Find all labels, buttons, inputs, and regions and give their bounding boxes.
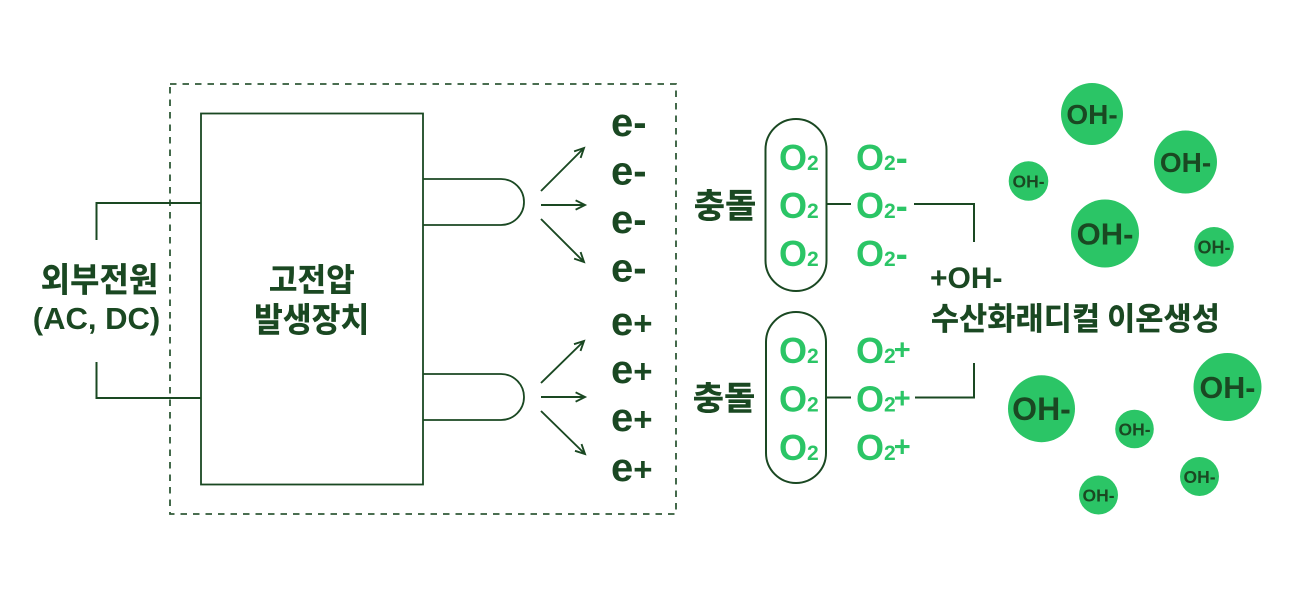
svg-text:e+: e+: [611, 348, 653, 392]
wire bracket top-left: [97, 203, 202, 240]
OH- ion circle D: [1071, 200, 1139, 268]
arrow e+ mid: [541, 392, 585, 401]
svg-text:OH-: OH-: [1183, 467, 1215, 487]
svg-text:e+: e+: [611, 300, 653, 344]
svg-text:O2-: O2-: [856, 185, 908, 226]
OH- ion circle J: [1079, 476, 1118, 515]
svg-text:OH-: OH-: [1200, 371, 1256, 405]
svg-text:O2+: O2+: [856, 330, 911, 371]
svg-text:OH-: OH-: [1066, 99, 1117, 130]
svg-text:O2: O2: [779, 378, 819, 419]
capsule O2 group bottom: [766, 312, 826, 483]
svg-text:O2: O2: [779, 233, 819, 274]
arrow e+ down: [541, 411, 585, 454]
svg-text:OH-: OH-: [1077, 217, 1134, 252]
OH- ion circle G: [1115, 410, 1154, 449]
wire elbow bottom: [915, 363, 974, 398]
label 고전압: [270, 264, 354, 294]
OH- ion circle I: [1180, 457, 1219, 496]
wire elbow top: [914, 204, 974, 242]
svg-text:O2: O2: [779, 137, 819, 178]
wire capsule to O2+: [827, 397, 851, 399]
svg-text:OH-: OH-: [1198, 237, 1231, 257]
svg-text:e+: e+: [611, 396, 653, 440]
svg-text:OH-: OH-: [1012, 171, 1044, 191]
label 발생장치: [256, 303, 366, 335]
svg-text:OH-: OH-: [1082, 485, 1114, 505]
OH- ion circle H: [1194, 353, 1262, 421]
label 외부전원: [42, 263, 156, 295]
electrode prong top: [423, 179, 524, 225]
svg-text:e-: e-: [611, 198, 647, 242]
arrow e- down: [541, 219, 584, 262]
arrow e+ up: [541, 341, 584, 383]
svg-text:+OH-: +OH-: [930, 262, 1003, 295]
svg-text:e-: e-: [611, 246, 647, 290]
svg-text:O2-: O2-: [856, 233, 908, 274]
arrow e- up: [541, 148, 584, 191]
wire capsule to O2-: [827, 203, 851, 205]
arrow e- mid: [541, 200, 585, 209]
svg-text:OH-: OH-: [1012, 391, 1071, 427]
svg-text:O2-: O2-: [856, 137, 908, 178]
svg-text:O2: O2: [779, 330, 819, 371]
OH- ion circle A: [1061, 83, 1123, 145]
svg-text:e-: e-: [611, 149, 647, 193]
svg-text:e-: e-: [611, 101, 647, 145]
label 수산화래디컬 이온생성: [932, 303, 1217, 333]
OH- ion circle E: [1194, 227, 1234, 267]
wire bracket bottom-left: [97, 362, 202, 398]
dashed enclosure box: [170, 84, 676, 514]
svg-text:O2+: O2+: [856, 427, 911, 468]
OH- ion circle B: [1009, 161, 1049, 201]
svg-text:OH-: OH-: [1118, 419, 1150, 439]
svg-text:(AC, DC): (AC, DC): [33, 301, 160, 336]
label 충돌 bottom: [694, 382, 754, 413]
svg-text:O2: O2: [779, 185, 819, 226]
electrode prong bottom: [423, 374, 524, 420]
svg-text:e+: e+: [611, 446, 653, 490]
capsule O2 group top: [766, 119, 827, 291]
high-voltage generator box: [201, 114, 423, 485]
svg-text:OH-: OH-: [1160, 147, 1211, 178]
svg-text:O2+: O2+: [856, 378, 911, 419]
OH- ion circle F: [1008, 375, 1075, 442]
svg-text:O2: O2: [779, 427, 819, 468]
OH- ion circle C: [1154, 131, 1217, 194]
label 충돌 top: [695, 189, 755, 221]
